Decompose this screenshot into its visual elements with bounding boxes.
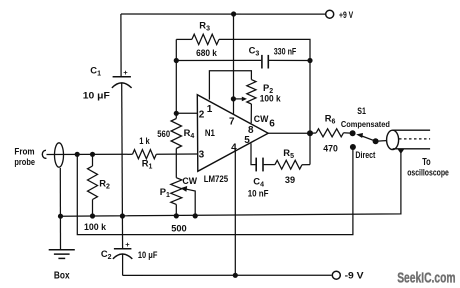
svg-text:10 nF: 10 nF — [248, 188, 269, 199]
svg-text:CW: CW — [182, 176, 197, 186]
svg-text:10 μF: 10 μF — [83, 89, 110, 100]
svg-text:To: To — [422, 157, 431, 168]
svg-text:1: 1 — [207, 104, 213, 115]
svg-text:100 k: 100 k — [84, 221, 107, 232]
svg-text:100 k: 100 k — [260, 93, 282, 104]
svg-text:CW: CW — [254, 114, 269, 124]
svg-text:6: 6 — [269, 118, 275, 129]
svg-text:470: 470 — [323, 143, 338, 154]
svg-text:3: 3 — [199, 150, 205, 161]
svg-text:330 nF: 330 nF — [274, 47, 297, 57]
svg-text:500: 500 — [171, 223, 187, 234]
svg-text:oscilloscope: oscilloscope — [407, 167, 449, 178]
svg-text:4: 4 — [231, 143, 237, 154]
svg-text:probe: probe — [14, 157, 35, 168]
svg-text:560: 560 — [157, 128, 170, 139]
svg-text:LM725: LM725 — [204, 173, 229, 184]
svg-text:+: + — [125, 240, 130, 249]
svg-text:1 k: 1 k — [139, 135, 150, 146]
svg-text:10 μF: 10 μF — [138, 249, 158, 260]
svg-text:7: 7 — [229, 117, 235, 128]
svg-text:680 k: 680 k — [196, 47, 217, 58]
svg-text:+: + — [123, 68, 128, 77]
svg-text:S1: S1 — [357, 105, 366, 116]
svg-text:5: 5 — [244, 135, 250, 146]
svg-text:N1: N1 — [205, 128, 215, 138]
svg-text:2: 2 — [199, 109, 205, 120]
svg-text:Compensated: Compensated — [341, 119, 390, 129]
svg-text:+9 V: +9 V — [339, 9, 354, 20]
svg-text:SeekIC.com: SeekIC.com — [397, 270, 455, 286]
svg-text:Direct: Direct — [355, 150, 375, 160]
svg-text:Box: Box — [54, 271, 70, 282]
svg-text:-9 V: -9 V — [345, 270, 365, 281]
svg-text:39: 39 — [285, 174, 295, 185]
